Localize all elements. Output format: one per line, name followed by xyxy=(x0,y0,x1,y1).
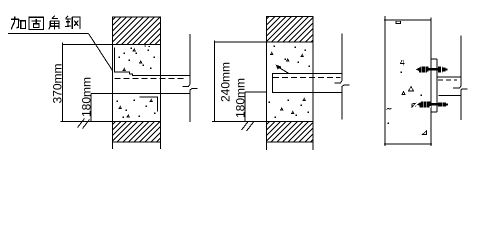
glyph 加 xyxy=(11,17,26,30)
wall column edges xyxy=(113,17,161,149)
upper masonry hatch xyxy=(267,16,313,42)
angle steel strip xyxy=(431,59,437,112)
anchor bolt B2 xyxy=(412,101,448,107)
svg-text:180mm: 180mm xyxy=(79,77,93,117)
dimension baseline xyxy=(61,121,113,123)
svg-text:240mm: 240mm xyxy=(219,62,233,102)
leader arrow at slot xyxy=(276,65,289,74)
slab top line xyxy=(437,76,461,78)
anchor bolt B1 xyxy=(416,66,447,72)
concrete speckle lower xyxy=(269,100,309,118)
slab break line xyxy=(453,36,468,120)
dimension 180mm line xyxy=(245,92,266,122)
slab break line xyxy=(182,34,197,122)
slab hidden dashed xyxy=(438,79,457,81)
lower masonry hatch xyxy=(267,121,313,142)
glyph 角 xyxy=(49,16,59,30)
leader line xyxy=(89,34,113,71)
wall face rectangle xyxy=(384,16,432,146)
concrete speckle upper xyxy=(274,46,310,68)
hidden edge dashed xyxy=(273,77,340,79)
dimension tick slashes xyxy=(242,121,254,131)
leader underline xyxy=(8,33,89,35)
glyph 固 xyxy=(29,17,43,29)
concrete speckle lower xyxy=(117,100,156,118)
hidden edge dashed xyxy=(115,77,187,79)
angle steel L1 xyxy=(114,48,190,76)
slab break line xyxy=(334,34,349,120)
glyph 钢 xyxy=(65,16,80,29)
wall column edges xyxy=(267,16,313,150)
slot outline xyxy=(272,74,342,93)
svg-text:180mm: 180mm xyxy=(233,78,247,118)
dimension baseline xyxy=(212,120,267,122)
dimension 180mm line xyxy=(90,94,92,122)
upper masonry hatch xyxy=(113,17,161,45)
lower masonry hatch xyxy=(113,122,161,143)
concrete speckle upper xyxy=(119,45,155,69)
angle steel L2 xyxy=(140,97,158,111)
dimension 370mm line xyxy=(62,43,112,122)
label text 加固角钢 xyxy=(11,16,80,30)
slot bottom / 180 extension line xyxy=(91,93,190,95)
slab bottom line xyxy=(438,95,460,97)
dimension 240mm line xyxy=(214,41,266,122)
svg-text:370mm: 370mm xyxy=(51,63,65,103)
dimension tick slashes xyxy=(78,119,90,129)
wall speckles xyxy=(386,21,426,134)
